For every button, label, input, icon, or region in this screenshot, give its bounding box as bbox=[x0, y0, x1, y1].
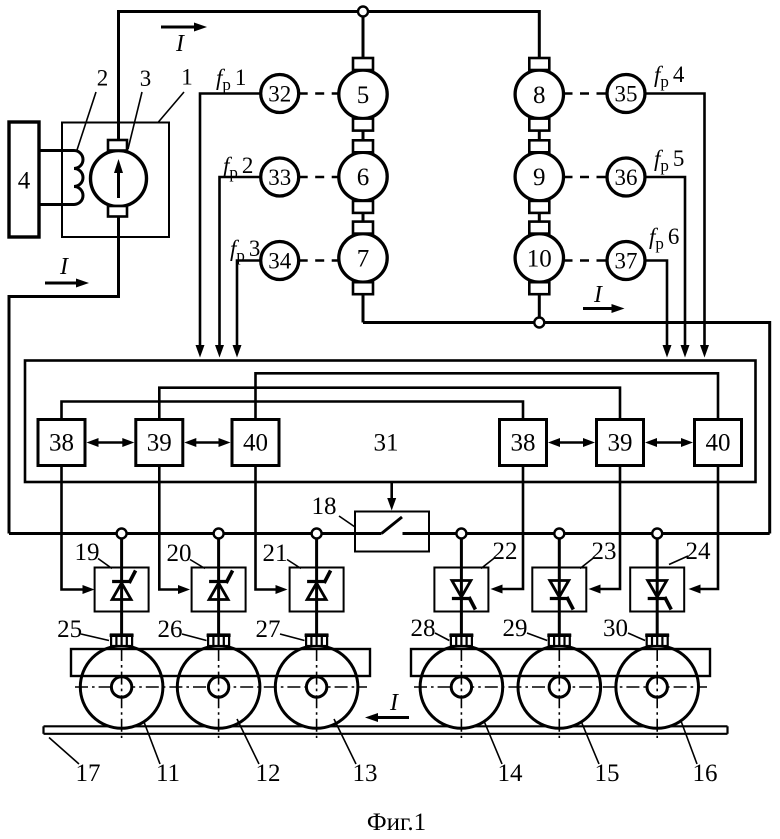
label 3 with leader bbox=[128, 92, 142, 149]
label 17 with leader bbox=[49, 738, 79, 765]
axlebox 28 bbox=[449, 635, 473, 647]
node: bus junction for wheelset 11 bbox=[117, 529, 127, 539]
svg-text:28: 28 bbox=[411, 615, 436, 642]
node: bus junction for wheelset 16 bbox=[652, 529, 662, 539]
label 26 with leader bbox=[182, 634, 207, 641]
wheel 13 bbox=[275, 646, 358, 729]
svg-text:27: 27 bbox=[256, 616, 281, 643]
double-headed arrow between blocks bbox=[95, 441, 126, 444]
svg-text:10: 10 bbox=[527, 245, 552, 272]
wire: branch from bus down to wheelset 15 bbox=[558, 534, 561, 637]
wire: block output to thyristor 22 gate (arrow left) bbox=[500, 466, 524, 590]
svg-text:16: 16 bbox=[693, 760, 718, 787]
double-headed arrow between blocks bbox=[193, 441, 222, 444]
wire: sensor 35 output fp4 down into block 31 bbox=[645, 94, 705, 348]
axlebox 29 bbox=[547, 635, 571, 647]
wire: sensor 37 output fp6 down into block 31 bbox=[645, 261, 667, 348]
label 29 with leader bbox=[527, 633, 547, 641]
svg-text:9: 9 bbox=[533, 164, 546, 191]
double-headed arrow between blocks bbox=[557, 441, 587, 444]
wire: sensor 34 output fp3 down into block 31 bbox=[237, 261, 261, 348]
svg-text:40: 40 bbox=[243, 430, 268, 457]
wire: bus linking left 40 to right 40 bbox=[256, 373, 719, 419]
motor 6 bbox=[339, 152, 387, 200]
wheel hub 11 bbox=[111, 677, 131, 697]
thyristor unit 22 bbox=[434, 568, 488, 612]
label 27 with leader bbox=[280, 634, 305, 641]
block 40 at x=255.5 bbox=[232, 420, 279, 466]
motor 9 bbox=[515, 152, 563, 200]
svg-text:23: 23 bbox=[592, 538, 617, 565]
thyristor unit 19 bbox=[95, 568, 149, 612]
wire: from motor 3 down, left and down to main bus bbox=[9, 216, 119, 534]
motor 5 bbox=[339, 70, 387, 118]
thyristor unit 24 bbox=[630, 568, 684, 612]
svg-text:36: 36 bbox=[615, 165, 638, 190]
label 28 with leader bbox=[435, 633, 449, 641]
sensor 37 bbox=[607, 242, 645, 280]
wire: branch from bus down to wheelset 11 bbox=[120, 534, 123, 637]
dashed coupling sensor 37 to motor bbox=[564, 259, 608, 262]
svg-text:29: 29 bbox=[503, 615, 528, 642]
wheel hub 14 bbox=[451, 677, 471, 697]
label 30 with leader bbox=[628, 633, 645, 641]
block 39 at x=159.3 bbox=[136, 420, 183, 466]
svg-text:I: I bbox=[175, 31, 185, 57]
wire: block output to thyristor 23 gate (arrow left) bbox=[598, 466, 621, 590]
wire: sensor 32 output fp1 down into block 31 bbox=[200, 94, 261, 348]
svg-text:Фиг.1: Фиг.1 bbox=[367, 809, 426, 836]
svg-text:40: 40 bbox=[706, 430, 731, 457]
switch 18 bbox=[355, 512, 429, 552]
centreline horizontal (left bogie) bbox=[75, 686, 367, 688]
bogie frame (right, wheels 14-16) bbox=[411, 649, 710, 676]
svg-text:6: 6 bbox=[357, 164, 370, 191]
svg-text:1: 1 bbox=[181, 65, 193, 90]
node: bus junction for wheelset 14 bbox=[456, 529, 466, 539]
dashed coupling sensor 33 to motor bbox=[299, 176, 339, 179]
label 18 with leader bbox=[339, 516, 355, 527]
label 1 with leader bbox=[158, 92, 184, 123]
dashed coupling sensor 32 to motor bbox=[299, 92, 339, 95]
sensor 36 bbox=[607, 158, 645, 196]
wire: sensor 33 output fp2 down into block 31 bbox=[220, 177, 261, 347]
block 39 at x=620 bbox=[597, 420, 644, 466]
svg-text:11: 11 bbox=[156, 760, 180, 787]
svg-text:19: 19 bbox=[75, 539, 100, 566]
motor 7 bbox=[339, 234, 387, 282]
node: bus junction for wheelset 15 bbox=[554, 529, 564, 539]
wire: block output to thyristor 20 gate (arrow right) bbox=[159, 466, 181, 590]
block 40 at x=718 bbox=[695, 420, 742, 466]
svg-text:32: 32 bbox=[268, 82, 291, 107]
svg-text:37: 37 bbox=[615, 249, 638, 274]
label 15 with leader bbox=[581, 721, 599, 764]
centreline vertical wheel 15 bbox=[558, 648, 560, 738]
svg-text:I: I bbox=[593, 282, 603, 308]
svg-text:38: 38 bbox=[511, 430, 536, 457]
wire: branch from bus down to wheelset 16 bbox=[656, 534, 659, 637]
label 22 with leader bbox=[481, 558, 495, 569]
motor 10 bbox=[515, 234, 563, 282]
svg-text:14: 14 bbox=[498, 760, 524, 787]
svg-text:7: 7 bbox=[357, 245, 370, 272]
motor 3 (generator with arrow) bbox=[91, 151, 147, 207]
wire: block output to thyristor 19 gate (arrow right) bbox=[62, 466, 86, 590]
wire: block output to thyristor 24 gate (arrow left) bbox=[698, 466, 719, 590]
block 4 (power source) bbox=[9, 122, 39, 237]
block 38 at x=61.5 bbox=[38, 420, 85, 466]
sensor 32 bbox=[261, 75, 299, 113]
wire: block output to thyristor 21 gate (arrow right) bbox=[256, 466, 279, 590]
svg-text:18: 18 bbox=[312, 493, 337, 520]
label 16 with leader bbox=[681, 721, 697, 764]
thyristor unit 23 bbox=[532, 568, 586, 612]
label 21 with leader bbox=[287, 560, 301, 569]
wheel 15 bbox=[518, 646, 601, 729]
label 24 with leader bbox=[669, 556, 688, 565]
thyristor unit 21 bbox=[290, 568, 344, 612]
label 20 with leader bbox=[190, 560, 205, 569]
wire: branch from bus down to wheelset 12 bbox=[217, 534, 220, 637]
label 14 with leader bbox=[484, 721, 502, 764]
svg-text:24: 24 bbox=[686, 538, 712, 565]
wheel hub 13 bbox=[306, 677, 326, 697]
wheel 11 bbox=[80, 646, 163, 729]
axlebox 26 bbox=[207, 635, 231, 647]
svg-text:25: 25 bbox=[57, 616, 82, 643]
svg-text:21: 21 bbox=[263, 540, 288, 567]
wheel hub 15 bbox=[549, 677, 569, 697]
axlebox 25 bbox=[110, 635, 134, 647]
wire: main lower bus (right part) bbox=[429, 532, 770, 535]
label 19 with leader bbox=[98, 559, 112, 569]
svg-text:4: 4 bbox=[18, 168, 31, 195]
node: junction on top bus above motor 5 bbox=[358, 7, 368, 17]
coil 2 (field winding) bbox=[38, 151, 84, 205]
axlebox 27 bbox=[305, 635, 329, 647]
svg-text:26: 26 bbox=[158, 616, 183, 643]
centreline vertical wheel 16 bbox=[656, 648, 658, 738]
svg-text:12: 12 bbox=[256, 760, 281, 787]
dashed coupling sensor 36 to motor bbox=[564, 176, 608, 179]
svg-text:20: 20 bbox=[167, 540, 192, 567]
box 1 (exciter unit) bbox=[62, 123, 169, 238]
wire: sensor 36 output fp5 down into block 31 bbox=[645, 177, 685, 347]
thyristor unit 20 bbox=[192, 568, 246, 612]
double-headed arrow between blocks bbox=[654, 441, 685, 444]
sensor 35 bbox=[607, 75, 645, 113]
label 11 with leader bbox=[144, 722, 160, 764]
wire: bus linking left 39 to right 39 bbox=[159, 388, 620, 420]
wheel hub 16 bbox=[647, 677, 667, 697]
svg-text:31: 31 bbox=[374, 430, 399, 457]
wire: top supply bus from motor 3 up and across to motor 8 bbox=[119, 12, 540, 141]
svg-text:I: I bbox=[389, 690, 399, 716]
svg-text:39: 39 bbox=[147, 430, 172, 457]
label 23 with leader bbox=[580, 558, 594, 569]
wire: branch from bus down to wheelset 13 bbox=[315, 534, 318, 637]
svg-text:15: 15 bbox=[595, 760, 620, 787]
label 12 with leader bbox=[237, 719, 259, 764]
label 13 with leader bbox=[334, 719, 356, 764]
centreline vertical wheel 12 bbox=[218, 648, 220, 738]
centreline horizontal (right bogie) bbox=[414, 686, 707, 688]
svg-text:3: 3 bbox=[140, 66, 152, 91]
svg-text:17: 17 bbox=[76, 760, 101, 787]
wheel hub 12 bbox=[208, 677, 228, 697]
wire: bus linking left 38 to right 38 bbox=[62, 402, 524, 420]
dashed coupling sensor 34 to motor bbox=[299, 259, 339, 262]
svg-text:38: 38 bbox=[49, 430, 74, 457]
svg-text:I: I bbox=[59, 254, 69, 280]
svg-text:39: 39 bbox=[608, 430, 633, 457]
axlebox 30 bbox=[645, 635, 669, 647]
svg-text:13: 13 bbox=[353, 760, 378, 787]
dashed coupling sensor 35 to motor bbox=[564, 92, 608, 95]
label 25 with leader bbox=[81, 634, 109, 641]
bogie frame (left, wheels 11-13) bbox=[71, 649, 370, 676]
sensor 33 bbox=[261, 158, 299, 196]
wire: right motor column vertical (through motors 8,9,10) bbox=[538, 58, 541, 323]
label 2 with leader bbox=[77, 92, 96, 150]
centreline vertical wheel 13 bbox=[316, 648, 318, 738]
motor 8 bbox=[515, 70, 563, 118]
current arrow I (top) bbox=[161, 26, 196, 29]
wheel 16 bbox=[616, 646, 699, 729]
svg-text:5: 5 bbox=[357, 82, 370, 109]
block 31 (control unit) bbox=[25, 361, 756, 483]
svg-text:22: 22 bbox=[493, 538, 518, 565]
node: junction on bottom return bus below motor 10 bbox=[534, 318, 544, 328]
svg-text:33: 33 bbox=[268, 165, 291, 190]
centreline vertical wheel 14 bbox=[460, 648, 462, 738]
block 38 at x=523 bbox=[500, 420, 547, 466]
sensor 34 bbox=[261, 242, 299, 280]
svg-text:35: 35 bbox=[615, 82, 638, 107]
wire: bottom return bus from motor 7 to right edge and down bbox=[363, 323, 770, 534]
wheel 12 bbox=[177, 646, 260, 729]
wire: left motor column vertical (through motors 5,6,7) bbox=[362, 12, 365, 323]
node: bus junction for wheelset 12 bbox=[214, 529, 224, 539]
svg-text:34: 34 bbox=[268, 249, 292, 274]
wire: branch from bus down to wheelset 14 bbox=[460, 534, 463, 637]
node: bus junction for wheelset 13 bbox=[312, 529, 322, 539]
centreline vertical wheel 11 bbox=[121, 648, 123, 738]
rail 17 (drawn under wheels) bbox=[44, 725, 728, 727]
wire: main lower bus (left part) bbox=[9, 532, 355, 535]
svg-text:8: 8 bbox=[533, 82, 546, 109]
wheel 14 bbox=[420, 646, 503, 729]
svg-text:2: 2 bbox=[97, 66, 109, 91]
svg-text:30: 30 bbox=[603, 615, 628, 642]
wire: arrow from block 31 down to switch 18 bbox=[390, 482, 393, 501]
